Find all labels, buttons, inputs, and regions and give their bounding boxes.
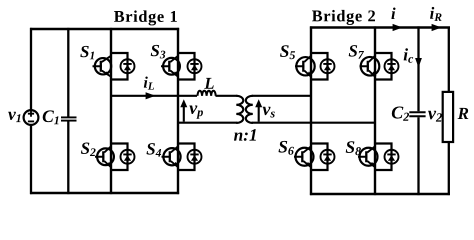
diode D6 circle	[321, 150, 335, 164]
arrow vp voltage (up) shaft	[183, 106, 185, 122]
diode D7 circle	[385, 59, 399, 73]
transistor S5 IGBT emitter lead with arrow	[304, 71, 311, 77]
switch S7 diode-branch loop wire	[375, 53, 392, 80]
transistor S8 IGBT emitter lead with arrow	[367, 161, 375, 167]
arrowhead i current arrow on Bridge 2 top rail	[393, 24, 403, 31]
transistor S7 IGBT base bar	[367, 61, 369, 72]
wire: secondary top wire from transformer to leg5 midpoint	[252, 95, 311, 97]
label C2	[392, 106, 409, 120]
diode D6 cathode bar	[323, 153, 331, 155]
transistor S4 IGBT collector lead	[171, 146, 178, 152]
wire: capacitor C1 rail upper segment	[67, 28, 69, 117]
diode D8 anode triangle (pointing up)	[388, 155, 395, 161]
transistor S1 IGBT base bar	[100, 61, 102, 72]
label vs	[263, 107, 275, 118]
diode D4 anode triangle (pointing up)	[191, 155, 198, 161]
arrow vs arrowhead	[255, 99, 262, 107]
arrowhead ic current arrow (down)	[415, 58, 422, 68]
diode D2 circle	[121, 150, 135, 164]
transistor S8 IGBT base lead	[358, 156, 367, 158]
wire: secondary bottom wire from transformer to leg7 midpoint (crosses leg5)	[252, 122, 375, 124]
diode D4 circle	[188, 150, 202, 164]
diode D5 circle	[321, 59, 335, 73]
transistor S4 IGBT base bar	[169, 151, 171, 162]
transistor S5 IGBT body circle	[296, 57, 314, 75]
transistor S2 IGBT base bar	[102, 151, 104, 162]
label S5	[280, 45, 295, 59]
label S8	[346, 141, 361, 155]
transistor S4 IGBT base lead	[162, 156, 171, 158]
arrowhead iR current arrow on top rail	[432, 24, 442, 31]
diode D3 cathode bar	[190, 63, 198, 65]
arrow vp arrowhead	[180, 99, 187, 107]
label v2	[428, 111, 442, 122]
wire: capacitor C1 rail lower segment	[67, 121, 69, 194]
diode D5 cathode bar	[323, 63, 331, 65]
transistor S6 IGBT body circle	[296, 148, 314, 166]
label R	[458, 108, 469, 119]
wire: left input rail lower segment	[30, 125, 32, 194]
diode D3 anode triangle (pointing up)	[191, 65, 198, 71]
label S3	[151, 45, 166, 59]
transistor S6 IGBT base bar	[301, 151, 303, 162]
label vp	[189, 106, 203, 119]
diode D3 circle	[188, 59, 202, 73]
wire: Bridge 1 bottom rail	[30, 192, 179, 194]
diode D4 cathode bar	[190, 153, 198, 155]
transistor S1 IGBT emitter lead with arrow	[102, 71, 111, 77]
wire: Bridge 2 top rail	[310, 26, 450, 28]
wire: Bridge 2 bottom rail	[310, 193, 450, 195]
wire: capacitor C2 rail lower segment	[417, 117, 419, 195]
transformer primary winding	[236, 96, 243, 123]
transistor S2 IGBT base lead	[95, 156, 104, 158]
transistor S3 IGBT base lead	[161, 65, 170, 67]
transistor S8 IGBT collector lead	[367, 146, 375, 152]
transistor S7 IGBT collector lead	[369, 56, 375, 62]
diode D2 anode triangle (pointing up)	[124, 155, 131, 161]
label i	[391, 8, 395, 19]
transistor S3 IGBT emitter lead with arrow	[170, 71, 178, 77]
diode D7 cathode bar	[387, 63, 395, 65]
transistor S7 IGBT base lead	[360, 65, 369, 67]
transistor S8 IGBT body circle	[360, 148, 378, 166]
transistor S2 IGBT collector lead	[104, 146, 111, 152]
wire: resistor R to bottom rail	[448, 142, 450, 195]
transistor S6 IGBT emitter lead with arrow	[303, 161, 311, 167]
wire: Bridge 1 top rail	[30, 28, 179, 30]
label ic	[404, 48, 414, 63]
transistor S7 IGBT body circle	[361, 57, 380, 76]
capacitor C1 top plate	[61, 116, 77, 118]
switch S3 diode-branch loop wire	[178, 53, 195, 80]
transistor S2 IGBT emitter lead with arrow	[104, 161, 111, 167]
wire: left input rail upper segment	[30, 28, 32, 111]
diode D1 circle	[121, 59, 135, 73]
title Bridge 1	[114, 10, 177, 25]
transistor S1 IGBT collector lead	[102, 56, 111, 62]
wire: primary top wire from leg1 midpoint to inductor	[111, 95, 197, 97]
resistor R rectangle	[443, 92, 453, 142]
source v1 plus sign	[28, 111, 34, 117]
source v1 circle	[24, 110, 39, 125]
label C1	[43, 110, 59, 124]
transistor S3 IGBT body circle	[163, 58, 180, 75]
switch S5 diode-branch loop wire	[311, 53, 328, 80]
wire: Bridge 1 right leg (S3/S4)	[177, 28, 179, 194]
wire: Bridge 1 left leg (S1/S2)	[110, 28, 112, 194]
switch S8 diode-branch loop wire	[375, 144, 392, 171]
transistor S5 IGBT base bar	[302, 61, 304, 72]
wire: inductor to transformer primary top	[216, 95, 238, 97]
diode D6 anode triangle (pointing up)	[324, 155, 331, 161]
diode D5 anode triangle (pointing up)	[324, 65, 331, 71]
source v1 minus sign	[28, 120, 34, 122]
wire: Bridge 2 left leg (S5/S6)	[310, 26, 312, 195]
transistor S4 IGBT body circle	[163, 148, 180, 165]
transistor S1 IGBT base lead	[93, 65, 102, 67]
diode D2 cathode bar	[123, 153, 131, 155]
wire: load branch from top rail down to resistor R	[448, 28, 450, 93]
label n:1 transformer ratio	[234, 129, 256, 141]
label S4	[147, 143, 162, 156]
diode D8 cathode bar	[387, 153, 395, 155]
wire: primary bottom wire from leg2 midpoint to transformer	[178, 122, 237, 124]
label L	[204, 78, 213, 89]
transformer secondary winding	[246, 96, 253, 123]
switch S2 diode-branch loop wire	[111, 144, 128, 171]
diode D1 anode triangle (pointing up)	[124, 65, 131, 71]
label S1	[80, 46, 94, 59]
transistor S6 IGBT base lead	[294, 156, 303, 158]
switch S6 diode-branch loop wire	[311, 144, 328, 171]
arrow vs voltage (up) shaft	[258, 106, 260, 122]
transistor S1 IGBT body circle	[95, 58, 111, 74]
transistor S5 IGBT base lead	[295, 65, 304, 67]
capacitor C2 top plate	[409, 111, 425, 113]
transistor S5 IGBT collector lead	[304, 56, 311, 62]
switch S4 diode-branch loop wire	[178, 144, 195, 171]
diode D1 cathode bar	[123, 63, 131, 65]
diode D7 anode triangle (pointing up)	[388, 65, 395, 71]
label S2	[81, 143, 96, 156]
transistor S3 IGBT collector lead	[170, 56, 178, 62]
transistor S8 IGBT base bar	[365, 151, 367, 162]
label iL	[144, 76, 154, 89]
transistor S7 IGBT emitter lead with arrow	[369, 71, 375, 77]
wire: Bridge 2 right leg (S7/S8)	[374, 26, 376, 195]
capacitor C1 bottom plate	[61, 120, 77, 122]
switch S1 diode-branch loop wire	[111, 53, 128, 80]
label S6	[279, 141, 294, 155]
wire: capacitor C2 rail upper segment (ic branch)	[417, 26, 419, 111]
arrowhead iL current arrow	[146, 92, 156, 99]
inductor L winding bumps	[198, 91, 216, 96]
transistor S4 IGBT emitter lead with arrow	[171, 161, 178, 167]
diode D8 circle	[385, 150, 399, 164]
capacitor C2 bottom plate	[409, 115, 425, 117]
label v1	[8, 112, 20, 122]
title Bridge 2	[312, 10, 375, 25]
transistor S2 IGBT body circle	[97, 148, 114, 165]
label iR	[430, 7, 442, 21]
transistor S3 IGBT base bar	[168, 61, 170, 72]
transistor S6 IGBT collector lead	[303, 146, 311, 152]
label S7	[349, 45, 364, 58]
